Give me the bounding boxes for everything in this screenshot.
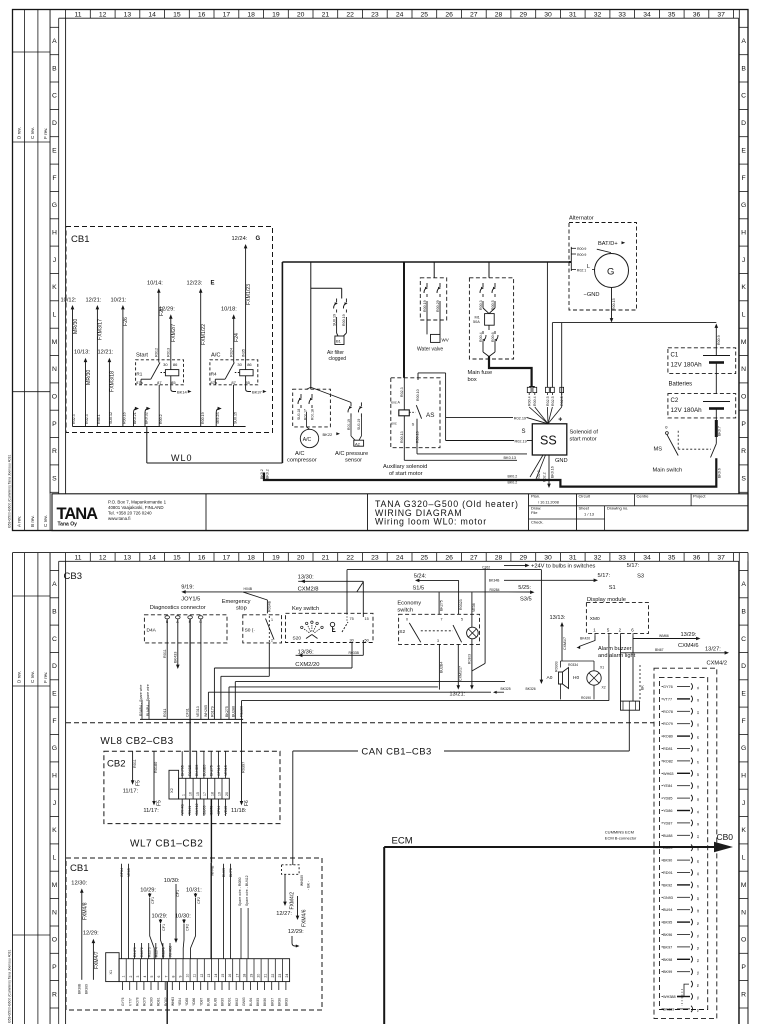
svg-text:11: 11 (74, 12, 81, 19)
svg-text:CF31: CF31 (186, 708, 190, 717)
svg-text:9/19:: 9/19: (181, 585, 194, 591)
svg-text:16: 16 (198, 555, 206, 562)
svg-text:SU0.18: SU0.18 (297, 409, 301, 420)
svg-text:F: F (742, 718, 746, 725)
svg-text:24: 24 (396, 12, 404, 19)
svg-text:CB1: CB1 (70, 863, 88, 874)
svg-text:AS: AS (426, 412, 434, 419)
svg-text:31: 31 (569, 12, 577, 19)
svg-text:Water valve: Water valve (417, 347, 443, 353)
svg-text:E: E (211, 281, 215, 287)
svg-text:85: 85 (245, 380, 250, 385)
svg-text:R0284: R0284 (490, 588, 500, 592)
svg-text:F: F (52, 718, 56, 725)
svg-text:O: O (52, 937, 57, 944)
svg-text:YD86: YD86 (192, 998, 196, 1006)
svg-text:3: 3 (136, 976, 140, 978)
svg-text:YD85: YD85 (185, 998, 189, 1006)
svg-text:BU69: BU69 (202, 806, 206, 815)
svg-text:BK389: BK389 (663, 1007, 674, 1011)
svg-text:Tel. +358 20 726 0240: Tel. +358 20 726 0240 (108, 511, 152, 516)
svg-text:10/12:: 10/12: (61, 298, 77, 304)
svg-text:R0275: R0275 (162, 947, 166, 957)
svg-text:D: D (52, 120, 57, 127)
svg-text:CB0: CB0 (717, 832, 734, 842)
svg-text:1: 1 (271, 618, 273, 622)
svg-text:75: 75 (350, 617, 354, 621)
svg-text:9: 9 (179, 976, 183, 978)
svg-text:28: 28 (495, 555, 503, 562)
svg-text:BK92: BK92 (235, 998, 239, 1006)
svg-text:13/27:: 13/27: (705, 647, 721, 653)
svg-text:H0: H0 (573, 675, 579, 681)
svg-text:X2: X2 (169, 787, 174, 793)
svg-text:G: G (741, 202, 746, 209)
svg-text:A rev.: A rev. (17, 516, 22, 527)
svg-text:R0303: R0303 (467, 654, 471, 664)
svg-text:87a: 87a (136, 380, 143, 385)
svg-text:N: N (52, 909, 57, 916)
svg-text:M: M (52, 339, 58, 346)
svg-text:R00.6: R00.6 (491, 332, 495, 342)
svg-text:CXM2/20: CXM2/20 (295, 662, 319, 668)
svg-text:87: 87 (231, 380, 236, 385)
svg-text:R013: R013 (167, 348, 171, 357)
svg-text:18: 18 (210, 792, 214, 796)
svg-text:YD87: YD87 (663, 821, 673, 825)
svg-text:CF315: CF315 (217, 765, 221, 776)
svg-text:P.O. Box 7, Mapankomantie 1: P.O. Box 7, Mapankomantie 1 (108, 500, 167, 505)
svg-text:26: 26 (445, 12, 453, 19)
svg-text:and alarm light: and alarm light (598, 653, 636, 659)
svg-text:13/13:: 13/13: (550, 615, 566, 621)
svg-text:BK0.6: BK0.6 (717, 468, 721, 478)
svg-text:33: 33 (618, 555, 626, 562)
svg-text:M: M (741, 339, 747, 346)
svg-text:47: 47 (696, 884, 700, 888)
svg-text:G53-G500-G600 (Cummins) Tana J: G53-G500-G600 (Cummins) Tana Joensuu 403… (8, 455, 12, 528)
svg-text:17: 17 (203, 792, 207, 796)
svg-text:XM0: XM0 (590, 616, 600, 622)
svg-text:CXM1/17: CXM1/17 (459, 666, 463, 681)
svg-text:BK420: BK420 (580, 636, 590, 640)
svg-text:7: 7 (164, 976, 168, 978)
svg-text:R4: R4 (211, 372, 217, 377)
svg-text:G: G (52, 202, 57, 209)
svg-text:BU2B4: BU2B4 (440, 662, 444, 673)
svg-text:44: 44 (696, 847, 700, 851)
svg-text:41: 41 (696, 810, 700, 814)
svg-text:14: 14 (214, 974, 218, 978)
svg-text:10/21:: 10/21: (111, 298, 127, 304)
svg-text:35: 35 (668, 12, 676, 19)
svg-text:R00.19: R00.19 (201, 412, 205, 424)
svg-text:A/C: A/C (303, 437, 312, 443)
svg-text:C2: C2 (671, 398, 679, 404)
svg-text:RO78: RO78 (135, 997, 139, 1006)
svg-text:RO80: RO80 (663, 735, 673, 739)
svg-text:12/27:: 12/27: (276, 911, 292, 917)
svg-text:C rev.: C rev. (30, 127, 35, 139)
svg-text:29: 29 (520, 12, 528, 19)
svg-text:10/29:: 10/29: (152, 914, 168, 920)
svg-text:WM66: WM66 (659, 634, 669, 638)
svg-text:RD91: RD91 (228, 997, 232, 1006)
svg-text:BK22: BK22 (323, 432, 334, 437)
svg-text:27: 27 (470, 555, 478, 562)
svg-text:4: 4 (143, 976, 147, 978)
svg-text:N: N (741, 366, 746, 373)
svg-text:FXM2/7: FXM2/7 (171, 324, 177, 342)
svg-text:36: 36 (696, 748, 700, 752)
svg-text:BK38B: BK38B (78, 983, 82, 994)
svg-text:12/29:: 12/29: (159, 307, 175, 313)
svg-text:BU88: BU88 (663, 834, 673, 838)
svg-text:CF1: CF1 (162, 924, 166, 931)
svg-text:2: 2 (271, 639, 273, 643)
svg-text:11/17:: 11/17: (143, 808, 159, 814)
svg-text:R1: R1 (136, 372, 142, 377)
svg-text:42: 42 (696, 822, 700, 826)
svg-text:C rev.: C rev. (30, 671, 35, 683)
svg-text:5: 5 (461, 618, 463, 622)
svg-text:X1: X1 (109, 970, 113, 975)
svg-text:54: 54 (696, 971, 700, 975)
svg-text:BK92: BK92 (663, 883, 672, 887)
svg-text:14: 14 (148, 555, 156, 562)
svg-text:R: R (741, 448, 746, 455)
svg-text:11: 11 (193, 974, 197, 978)
svg-text:32: 32 (594, 555, 602, 562)
svg-text:BU94: BU94 (249, 998, 253, 1006)
svg-text:BK0.2: BK0.2 (508, 475, 518, 479)
svg-text:WH4B: WH4B (211, 865, 215, 876)
svg-text:MS: MS (654, 447, 663, 453)
svg-text:GN93: GN93 (663, 896, 673, 900)
svg-text:F5: F5 (157, 800, 163, 806)
svg-text:D rev.: D rev. (17, 671, 22, 683)
svg-text:13: 13 (124, 555, 132, 562)
svg-text:VE313: VE313 (196, 706, 200, 717)
svg-text:12/29:: 12/29: (288, 929, 304, 935)
svg-text:BK0.32: BK0.32 (145, 412, 149, 424)
svg-text:VT77: VT77 (128, 998, 132, 1006)
svg-text:VE315: VE315 (224, 765, 228, 776)
svg-text:34: 34 (643, 555, 651, 562)
svg-text:Main switch: Main switch (653, 468, 683, 474)
svg-text:R02.5: R02.5 (546, 396, 550, 406)
svg-text:Auxiliary solenoid: Auxiliary solenoid (383, 464, 427, 470)
svg-text:BK34B: BK34B (489, 579, 500, 583)
svg-text:S3: S3 (637, 574, 644, 580)
svg-text:15: 15 (173, 12, 181, 19)
svg-text:R00.4: R00.4 (528, 396, 532, 406)
svg-text:R011: R011 (133, 759, 137, 768)
svg-text:R0397: R0397 (242, 762, 246, 773)
svg-text:R00.4: R00.4 (533, 396, 537, 406)
svg-text:BK96: BK96 (663, 933, 672, 937)
svg-text:Alternator: Alternator (569, 216, 594, 222)
svg-text:WH389: WH389 (300, 875, 304, 886)
svg-text:switch: switch (397, 608, 413, 614)
svg-text:21: 21 (264, 974, 268, 978)
svg-text:Emergency: Emergency (222, 599, 251, 605)
svg-text:J: J (53, 257, 56, 264)
svg-text:F26: F26 (123, 317, 129, 326)
svg-text:4K9.2S: 4K9.2S (216, 412, 220, 424)
svg-text:SU0.19: SU0.19 (357, 419, 361, 430)
svg-text:50A: 50A (473, 320, 480, 324)
svg-text:34: 34 (643, 12, 651, 19)
svg-text:53: 53 (696, 959, 700, 963)
svg-text:H: H (52, 773, 57, 780)
svg-text:J: J (53, 800, 56, 807)
svg-text:D: D (741, 120, 746, 127)
svg-text:YE84: YE84 (178, 998, 182, 1006)
svg-text:N: N (52, 366, 57, 373)
svg-text:30: 30 (163, 362, 168, 367)
svg-text:30: 30 (350, 638, 354, 642)
svg-text:R00.3: R00.3 (479, 300, 483, 310)
svg-text:22: 22 (271, 974, 275, 978)
svg-text:of start motor: of start motor (389, 471, 423, 477)
svg-text:R00.29: R00.29 (436, 300, 440, 312)
svg-text:X1: X1 (600, 666, 604, 670)
svg-text:12/29:: 12/29: (83, 931, 99, 937)
svg-text:RO78: RO78 (663, 710, 673, 714)
svg-text:Spare wire - R0B0: Spare wire - R0B0 (238, 877, 242, 906)
svg-text:F rev.: F rev. (43, 128, 48, 139)
svg-text:Tana Oy: Tana Oy (58, 522, 78, 528)
svg-text:R: R (741, 991, 746, 998)
svg-text:5/25:: 5/25: (518, 585, 531, 591)
svg-text:WV: WV (442, 338, 449, 343)
svg-text:25: 25 (421, 12, 429, 19)
svg-text:R56.13: R56.13 (416, 431, 420, 443)
svg-text:S: S (741, 476, 746, 483)
svg-text:35: 35 (696, 736, 700, 740)
svg-text:20: 20 (257, 974, 261, 978)
svg-text:BK90: BK90 (221, 998, 225, 1006)
svg-text:R02.2: R02.2 (537, 470, 541, 480)
svg-text:SU0.12: SU0.12 (109, 412, 113, 424)
svg-text:BK765: BK765 (181, 765, 185, 776)
svg-text:FXM4/6: FXM4/6 (301, 909, 307, 927)
svg-text:87a: 87a (210, 380, 217, 385)
svg-text:GN93: GN93 (242, 997, 246, 1006)
svg-text:Centre: Centre (637, 494, 650, 499)
svg-text:WH388: WH388 (663, 995, 676, 999)
svg-text:+: + (558, 417, 562, 424)
svg-text:25: 25 (421, 555, 429, 562)
svg-text:11/17:: 11/17: (123, 789, 139, 795)
svg-text:R00.16: R00.16 (123, 412, 127, 424)
svg-text:RO82: RO82 (663, 759, 673, 763)
svg-text:24: 24 (396, 555, 404, 562)
svg-text:5/17:: 5/17: (598, 573, 611, 579)
svg-text:FXM3/18: FXM3/18 (110, 371, 116, 392)
svg-text:10/30:: 10/30: (175, 914, 191, 920)
svg-text:12: 12 (99, 555, 107, 562)
svg-text:R02:1: R02:1 (577, 269, 586, 273)
svg-text:BK99: BK99 (285, 998, 289, 1006)
svg-text:C: C (741, 93, 746, 100)
svg-text:stop: stop (236, 606, 247, 612)
svg-text:10/14:: 10/14: (147, 281, 163, 287)
svg-text:R: R (52, 991, 57, 998)
svg-text:21: 21 (322, 12, 330, 19)
svg-text:14: 14 (148, 12, 156, 19)
svg-text:−GND: −GND (584, 292, 600, 298)
svg-text:S2: S2 (399, 629, 405, 635)
svg-text:36: 36 (693, 555, 701, 562)
svg-text:R00.2: R00.2 (159, 414, 163, 424)
svg-text:BK90: BK90 (663, 859, 672, 863)
svg-text:Alarm buzzer: Alarm buzzer (598, 646, 632, 652)
svg-text:5/24:: 5/24: (414, 574, 427, 580)
svg-text:GY76: GY76 (121, 997, 125, 1006)
svg-text:H: H (741, 773, 746, 780)
svg-text:SS: SS (540, 434, 557, 448)
svg-text:R0190: R0190 (581, 696, 591, 700)
svg-text:Circuit: Circuit (579, 494, 591, 499)
svg-text:A: A (52, 581, 57, 588)
svg-text:50: 50 (365, 638, 369, 642)
svg-text:ECM: ECM (392, 836, 413, 847)
svg-text:BU412: BU412 (195, 804, 199, 815)
svg-text:R341: R341 (188, 806, 192, 815)
svg-text:15: 15 (365, 617, 369, 621)
svg-text:J: J (742, 800, 745, 807)
svg-text:RD91: RD91 (663, 871, 673, 875)
svg-text:Plan.: Plan. (531, 494, 540, 499)
svg-text:F: F (52, 175, 56, 182)
svg-text:BK275: BK275 (439, 600, 443, 611)
svg-text:G: G (52, 745, 57, 752)
svg-text:27: 27 (470, 12, 478, 19)
svg-text:86: 86 (247, 362, 252, 367)
svg-text:A/C pressure: A/C pressure (335, 451, 368, 457)
svg-text:R00:9: R00:9 (577, 247, 586, 251)
svg-text:12V 180Ah: 12V 180Ah (671, 362, 703, 369)
svg-text:R0179: R0179 (133, 947, 137, 957)
svg-text:start motor: start motor (570, 437, 597, 443)
svg-text:R34B5: R34B5 (188, 765, 192, 776)
svg-text:R02.3: R02.3 (85, 414, 89, 424)
svg-text:12/21:: 12/21: (86, 298, 102, 304)
svg-text:R00.18: R00.18 (311, 409, 315, 420)
svg-text:Drawing no.: Drawing no. (607, 506, 628, 511)
svg-text:exc A: exc A (391, 401, 400, 405)
svg-text:R0273: R0273 (147, 947, 151, 957)
svg-text:BK326: BK326 (526, 687, 536, 691)
svg-text:A/C: A/C (211, 353, 220, 359)
svg-text:32: 32 (594, 12, 602, 19)
svg-text:R02.3: R02.3 (400, 387, 404, 397)
svg-text:D: D (52, 663, 57, 670)
svg-text:23: 23 (278, 974, 282, 978)
svg-text:R0180: R0180 (154, 762, 158, 773)
svg-text:13/30:: 13/30: (298, 575, 315, 581)
svg-text:12/24:: 12/24: (232, 236, 248, 242)
svg-text:12/21:: 12/21: (98, 350, 114, 356)
svg-text:24: 24 (285, 974, 289, 978)
svg-text:11: 11 (74, 555, 81, 562)
svg-text:10/30:: 10/30: (164, 878, 180, 884)
svg-text:K: K (741, 284, 746, 291)
svg-text:G: G (741, 745, 746, 752)
svg-text:Diagnostics connector: Diagnostics connector (150, 605, 206, 611)
svg-text:34: 34 (696, 723, 700, 727)
svg-text:15: 15 (221, 974, 225, 978)
svg-text:F5: F5 (136, 780, 142, 786)
svg-text:18: 18 (247, 12, 255, 19)
svg-text:55: 55 (696, 984, 700, 988)
svg-text:YD85: YD85 (663, 797, 673, 801)
svg-text:SU0.15: SU0.15 (233, 412, 237, 424)
svg-text:clogged: clogged (329, 356, 347, 362)
svg-text:13/21:: 13/21: (449, 691, 465, 697)
svg-text:A: A (741, 38, 746, 45)
svg-text:A0: A0 (547, 675, 553, 681)
svg-text:R033B: R033B (349, 651, 360, 655)
svg-text:12: 12 (200, 974, 204, 978)
svg-text:P: P (741, 421, 746, 428)
svg-text:H: H (741, 230, 746, 237)
svg-text:18: 18 (247, 555, 255, 562)
svg-text:VT77: VT77 (663, 697, 672, 701)
svg-text:28: 28 (495, 12, 503, 19)
svg-text:F6: F6 (244, 800, 250, 806)
svg-text:33: 33 (696, 711, 700, 715)
svg-text:File: File (531, 510, 538, 515)
svg-text:FXM4/2: FXM4/2 (289, 892, 295, 910)
svg-text:18: 18 (242, 974, 246, 978)
svg-text:BK14: BK14 (177, 390, 188, 395)
svg-text:SU0.19: SU0.19 (332, 314, 336, 326)
svg-text:Spare wire - BU412: Spare wire - BU412 (245, 875, 249, 906)
svg-text:R00.13: R00.13 (400, 431, 404, 443)
svg-text:49: 49 (696, 909, 700, 913)
svg-text:32: 32 (696, 698, 700, 702)
svg-text:WH4B8: WH4B8 (169, 945, 173, 957)
svg-text:8: 8 (171, 976, 175, 978)
svg-text:BK97: BK97 (270, 998, 274, 1006)
svg-text:B: B (52, 609, 57, 616)
svg-text:39: 39 (696, 785, 700, 789)
svg-text:L: L (587, 264, 590, 270)
svg-text:19: 19 (250, 974, 254, 978)
svg-text:BK97: BK97 (663, 945, 672, 949)
svg-text:51: 51 (696, 934, 700, 938)
svg-text:A/C: A/C (295, 451, 304, 457)
svg-text:A: A (741, 581, 746, 588)
svg-text:G53-G500-G600 (Cummins) Tana J: G53-G500-G600 (Cummins) Tana Joensuu 403… (8, 950, 12, 1023)
svg-text:R02.5: R02.5 (551, 396, 555, 406)
svg-text:O: O (52, 394, 57, 401)
svg-text:10/29:: 10/29: (140, 888, 156, 894)
svg-text:Sheet: Sheet (579, 506, 590, 511)
svg-text:C: C (52, 93, 57, 100)
svg-text:X2: X2 (602, 686, 606, 690)
svg-text:1: 1 (122, 976, 126, 978)
svg-text:WH265: WH265 (204, 705, 208, 717)
svg-text:30: 30 (544, 555, 552, 562)
svg-text:12: 12 (99, 12, 107, 19)
svg-text:S1: S1 (609, 585, 616, 591)
svg-text:WL7 CB1–CB2: WL7 CB1–CB2 (130, 839, 203, 850)
svg-text:R012: R012 (155, 348, 159, 357)
